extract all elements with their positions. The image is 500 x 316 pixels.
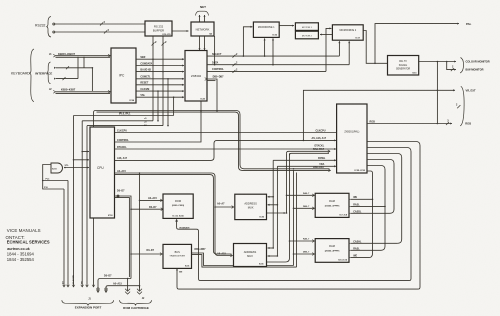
wire kb vert a xyxy=(77,57,79,79)
RAM2 DB stub xyxy=(294,253,315,255)
monitor bracket xyxy=(460,58,463,74)
keyboard sense line 2 xyxy=(56,67,92,69)
wire RS232 line2 xyxy=(55,31,145,33)
net pins up xyxy=(199,15,201,22)
wire MD1 to motor1 xyxy=(279,25,294,27)
wire RS232 line1 xyxy=(55,23,145,25)
CPU feed from vert rs1 xyxy=(82,151,89,153)
wire TV out xyxy=(375,24,459,64)
expansion vertical IPL xyxy=(73,116,75,288)
network pins down to ZX8302 xyxy=(199,36,201,50)
rs232 cross line 1 xyxy=(82,120,153,122)
wire MD2 right to PAL gen xyxy=(363,31,387,64)
MICRODRIVE 2 box xyxy=(332,25,363,40)
ROM box xyxy=(163,194,193,218)
keyboard brace inner xyxy=(47,62,51,84)
mux2 output xyxy=(267,258,290,262)
slash marks RS232 xyxy=(100,23,103,26)
osc output to CPU xyxy=(64,167,89,169)
D expansion tap xyxy=(97,281,99,288)
RS232 connector pins xyxy=(53,23,55,25)
DB bus vertical pair xyxy=(293,171,295,266)
wire kb vert b xyxy=(83,57,85,68)
wire control riser to MD2 left xyxy=(326,28,331,71)
wire MD1 pin1 xyxy=(264,38,266,56)
ZX8302 box xyxy=(185,51,207,102)
wire buffer to network xyxy=(172,30,189,32)
RAM 2 box xyxy=(315,239,349,263)
keyboard bus 2 (double) xyxy=(56,91,111,93)
osc feedback loop xyxy=(43,165,64,190)
expansion vertical osc xyxy=(67,181,69,288)
ADDRESS MUX 2 box xyxy=(234,244,267,267)
net bracket xyxy=(196,11,209,15)
wire MD1 pin2 xyxy=(272,38,274,64)
osc PL1 line xyxy=(43,180,68,182)
expansion vertical 0V xyxy=(63,189,65,287)
network right drop to DATA line xyxy=(214,36,216,65)
MICRODRIVE 1 box xyxy=(253,22,279,37)
wire MD2 pin2 xyxy=(348,41,350,64)
mux2 row/vda inputs xyxy=(268,247,274,249)
RAM 1 box xyxy=(315,193,349,217)
oscillator gate xyxy=(51,163,63,173)
mux1 output xyxy=(267,212,286,214)
ZX8301 box xyxy=(337,104,367,173)
IPC box xyxy=(111,48,136,103)
CPU feed from vert IPL xyxy=(74,159,90,161)
D bus to transceiver xyxy=(131,253,162,255)
wire MD2 pin1 xyxy=(338,41,340,56)
right bracket big xyxy=(460,86,464,126)
expansion vertical DB xyxy=(93,113,95,288)
wire MD2 to motor2 xyxy=(320,34,332,36)
rs232 cross line 2 xyxy=(87,125,163,127)
A bus branch to ROM and cartridge xyxy=(139,173,141,288)
RS232 brace xyxy=(46,17,51,38)
CPU box xyxy=(90,127,115,218)
expansion vertical rs1 xyxy=(81,121,83,287)
D bus branch to ROM xyxy=(131,208,163,210)
wire DB upper run xyxy=(96,111,245,169)
monitor out 1 xyxy=(419,61,456,63)
RAM1 DB stub xyxy=(294,207,315,209)
keyboard brace outer xyxy=(29,49,34,102)
BUS TRANSCEIVER box xyxy=(163,244,192,268)
VR EXT riser xyxy=(303,90,455,140)
RS-232 buffer box xyxy=(145,21,172,36)
wire buffer drop 1 xyxy=(152,36,154,59)
RAM1 RA stub xyxy=(287,194,315,196)
MOTOR 1 box xyxy=(295,23,318,31)
A bus branch to mux1 xyxy=(215,206,234,208)
RAM2 RA stub xyxy=(290,240,315,242)
extra riser xyxy=(157,91,159,121)
A expansion tap xyxy=(105,286,107,289)
keyboard bus 1 (double) xyxy=(56,55,111,57)
keyboard sense line 3 xyxy=(56,78,78,80)
NETWORK box xyxy=(191,22,214,36)
monitor out 2 xyxy=(447,62,456,70)
rom cartridge connector chevron A xyxy=(139,286,141,291)
expansion vertical rs2 xyxy=(86,126,88,287)
ZX8301 control fan (right edge elbows) xyxy=(367,142,420,176)
PAL TV box xyxy=(388,56,419,76)
RA bus vertical pair xyxy=(286,153,288,213)
rom cartridge connector chevron D xyxy=(127,279,129,291)
mux1 row/vda inputs xyxy=(268,196,274,198)
rom cartridge brace xyxy=(120,300,152,305)
MOTOR 2 box xyxy=(295,31,318,39)
expansion connector arrows for D/A done; brace expansion xyxy=(62,300,114,305)
wire buffer drop 2 xyxy=(162,36,164,72)
join vertical xyxy=(436,62,438,124)
ADDRESS MUX 1 box xyxy=(235,194,267,219)
wire kb vert c xyxy=(91,68,93,91)
wire select riser to MD1 left xyxy=(243,27,252,56)
